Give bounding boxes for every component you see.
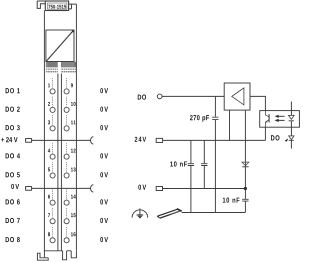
capacitor C1 270 pF plates bbox=[212, 117, 218, 119]
pin 6 wire dash bbox=[52, 189, 54, 199]
pin number 15 bbox=[71, 213, 76, 217]
pin 8 wire dash bbox=[52, 227, 54, 237]
pin 6 clamp circle bbox=[50, 200, 55, 205]
connector comb right bbox=[61, 62, 76, 68]
pin number 1 bbox=[48, 83, 50, 87]
pin 1 clamp circle bbox=[50, 89, 55, 94]
0V arc terminal bbox=[91, 185, 94, 193]
label DO 2 bbox=[6, 107, 20, 112]
pin 13 clamp circle bbox=[64, 173, 69, 178]
label 10 nF second bbox=[223, 198, 240, 203]
label 0 V schematic bbox=[138, 185, 146, 190]
wire 0V line bbox=[163, 188, 246, 190]
inner rail right bbox=[60, 74, 62, 251]
pin 2 wire dash bbox=[52, 97, 54, 107]
DIN rail symbol bbox=[157, 209, 181, 218]
connector comb left bbox=[46, 62, 58, 68]
pin 14 wire dash bbox=[66, 189, 68, 199]
pin 7 wire dash bbox=[52, 208, 54, 218]
pin number 7 bbox=[48, 213, 50, 217]
pin 16 wire dash bbox=[66, 227, 68, 237]
wire earth rail bottom bbox=[182, 212, 246, 214]
pin 12 wire dash bbox=[66, 143, 68, 153]
comb separator dashed lines bbox=[46, 69, 76, 72]
earth arc symbol bbox=[132, 208, 148, 217]
label 0V row 3 bbox=[100, 125, 108, 130]
label DO status LED bbox=[271, 135, 280, 140]
driver box U1 bbox=[224, 83, 250, 110]
pin 4 wire dash bbox=[52, 143, 54, 153]
pin 14 clamp circle bbox=[64, 200, 69, 205]
label 0V row 5 bbox=[100, 172, 108, 177]
wire emitter from optocoupler down to 24V line bbox=[264, 127, 266, 140]
optocoupler LED D2 lead bbox=[290, 102, 292, 128]
pin 9 wire dash bbox=[66, 78, 68, 88]
label 0V row 6 bbox=[100, 199, 108, 204]
electronics box corner dot bbox=[72, 30, 74, 32]
label 270 pF bbox=[190, 115, 209, 122]
label 0 V left bbox=[11, 184, 19, 189]
pin 3 wire dash bbox=[52, 115, 54, 125]
24V terminal square bbox=[156, 138, 162, 142]
label DO 6 bbox=[6, 199, 20, 204]
electronics box bbox=[46, 30, 74, 62]
+24V power line through module bbox=[32, 139, 91, 141]
capacitor C4 10 nF plates bbox=[242, 199, 248, 201]
pin 3 clamp circle bbox=[50, 126, 55, 131]
optocoupler LED D2 bbox=[289, 115, 295, 120]
0V marker square bbox=[26, 187, 32, 191]
pin number 6 bbox=[48, 195, 50, 199]
label DO 8 bbox=[6, 237, 20, 242]
pin 7 clamp circle bbox=[50, 219, 55, 224]
status LED pointer arrow bbox=[285, 138, 289, 141]
pin number 13 bbox=[71, 167, 76, 171]
wire driver output to optocoupler bbox=[250, 96, 265, 110]
status LED D3 bbox=[289, 136, 294, 140]
pin number 11 bbox=[71, 120, 76, 124]
label 24 V schematic bbox=[135, 137, 146, 142]
+24V arc terminal bbox=[91, 137, 94, 145]
label +24 V bbox=[1, 137, 17, 142]
module bottom middle foot bbox=[63, 251, 67, 260]
label 0V row 4 bbox=[100, 153, 108, 158]
wire 24V line bbox=[163, 139, 266, 141]
light arrow bottom bbox=[278, 119, 284, 121]
label 0V row 2 bbox=[100, 107, 108, 112]
+24V marker square bbox=[26, 139, 32, 143]
pin 10 clamp circle bbox=[64, 107, 69, 112]
label DO 3 bbox=[6, 125, 20, 130]
wire DO line to driver bbox=[162, 95, 224, 97]
capacitor C2 10 nF plates bbox=[188, 164, 194, 166]
phototransistor base bar bbox=[268, 114, 270, 122]
pin number 5 bbox=[48, 168, 50, 172]
pin 2 clamp circle bbox=[50, 107, 55, 112]
capacitor C3 10 nF branch wire bbox=[203, 140, 205, 188]
label 750-1515 bbox=[48, 5, 66, 9]
0V power line through module bbox=[32, 187, 91, 189]
module top tab bbox=[37, 1, 45, 8]
module bottom edge bbox=[44, 250, 71, 252]
pin number 2 bbox=[48, 102, 50, 106]
capacitor C2 10 nF branch wire bbox=[190, 140, 192, 212]
capacitor C1 270 pF branch wire bbox=[214, 96, 216, 212]
wire driver pin right down to 0V junction bbox=[244, 110, 246, 188]
pin number 14 bbox=[71, 195, 76, 199]
pin 8 clamp circle bbox=[50, 238, 55, 243]
light arrow top bbox=[278, 115, 284, 117]
node DO terminal circle bbox=[157, 94, 162, 99]
label 0V row 7 bbox=[100, 218, 108, 223]
pin number 9 bbox=[71, 83, 73, 87]
pin 10 wire dash bbox=[66, 97, 68, 107]
suppressor diode D1 bbox=[242, 162, 249, 166]
pin 15 wire dash bbox=[66, 208, 68, 218]
driver triangle bbox=[232, 88, 244, 105]
inner rail left bbox=[57, 74, 59, 251]
0V terminal square bbox=[156, 187, 162, 191]
pin 11 wire dash bbox=[66, 115, 68, 125]
pin number 4 bbox=[48, 149, 50, 153]
phototransistor emitter arrow bbox=[266, 121, 268, 123]
pin number 12 bbox=[71, 149, 76, 153]
label DO 5 bbox=[6, 172, 20, 177]
pin number 8 bbox=[48, 232, 50, 236]
pin 5 wire dash bbox=[52, 162, 54, 172]
pin 12 clamp circle bbox=[64, 154, 69, 159]
pin number 3 bbox=[48, 120, 50, 124]
capacitor C4 10 nF branch wire bbox=[244, 189, 246, 213]
module top right step bbox=[69, 4, 77, 9]
pin 4 clamp circle bbox=[50, 154, 55, 159]
module bottom right foot bbox=[71, 251, 76, 258]
module bottom left foot bbox=[37, 251, 48, 260]
phototransistor leads bbox=[265, 111, 269, 128]
module left wall bbox=[43, 11, 45, 252]
module right wall bbox=[75, 4, 77, 250]
junction dot 0V node bbox=[244, 187, 247, 190]
optocoupler box U2 bbox=[260, 111, 300, 128]
pin 16 clamp circle bbox=[64, 238, 69, 243]
label DO 4 bbox=[6, 153, 20, 158]
label 0V row 1 bbox=[100, 88, 108, 93]
capacitor C3 10 nF plates bbox=[201, 164, 207, 166]
label 10 nF first bbox=[170, 161, 187, 166]
status LED D3 lead bbox=[290, 127, 292, 148]
electronics box diagonal bbox=[47, 31, 74, 61]
label DO 7 bbox=[6, 218, 20, 223]
pin 5 clamp circle bbox=[50, 173, 55, 178]
pin 9 clamp circle bbox=[64, 89, 69, 94]
module label box bbox=[45, 1, 68, 11]
label DO schematic bbox=[138, 95, 146, 100]
pin 1 wire dash bbox=[52, 78, 54, 88]
pin 11 clamp circle bbox=[64, 126, 69, 131]
label 0V row 8 bbox=[100, 237, 108, 242]
pin 15 clamp circle bbox=[64, 219, 69, 224]
pin 13 wire dash bbox=[66, 162, 68, 172]
pin number 10 bbox=[71, 102, 76, 106]
label DO 1 bbox=[6, 88, 20, 93]
wire driver pin left to 24V line bbox=[229, 110, 231, 140]
pin number 16 bbox=[71, 232, 76, 236]
